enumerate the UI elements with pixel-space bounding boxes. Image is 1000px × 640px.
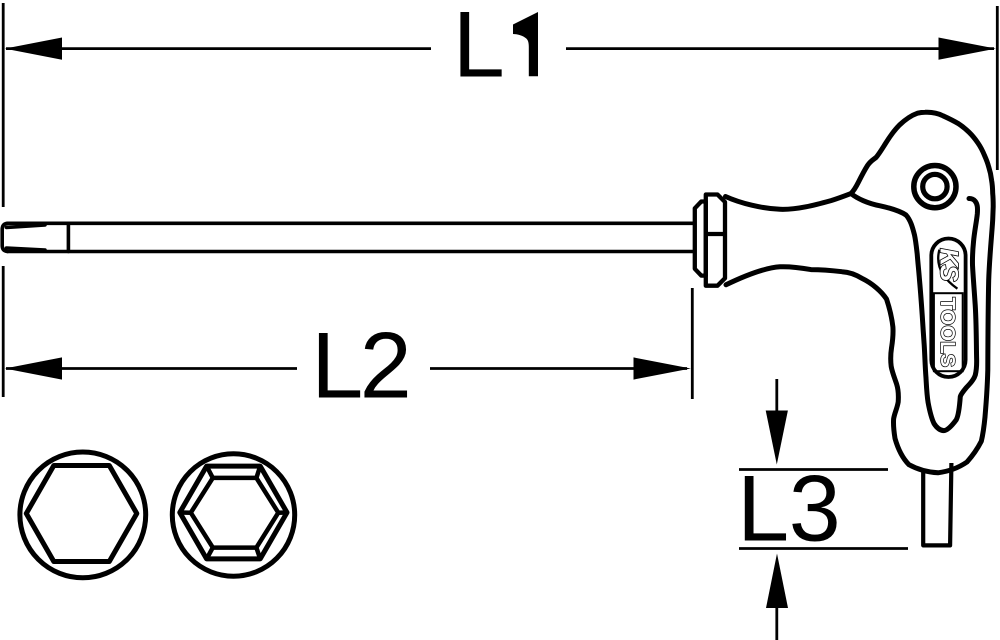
- svg-text:TOOLS: TOOLS: [936, 297, 958, 367]
- svg-text:L3: L3: [737, 456, 841, 561]
- svg-text:KS: KS: [934, 248, 962, 282]
- svg-text:L: L: [453, 0, 505, 96]
- svg-text:L2: L2: [311, 312, 412, 417]
